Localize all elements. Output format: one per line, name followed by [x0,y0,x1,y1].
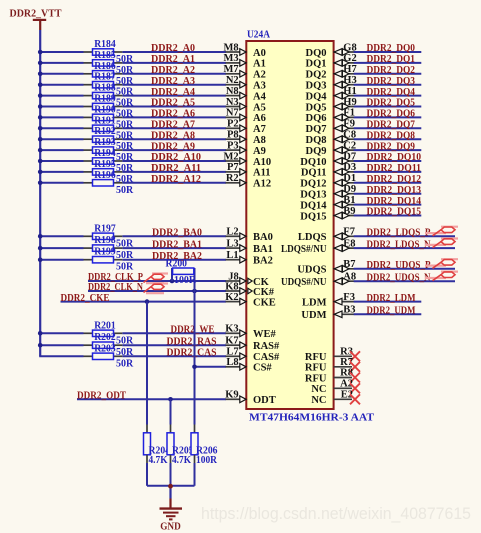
svg-text:DDR2_VTT: DDR2_VTT [10,9,62,20]
svg-text:R200: R200 [166,259,188,270]
svg-text:DQ5: DQ5 [306,102,327,113]
svg-text:D7: D7 [343,151,356,162]
svg-text:CS#: CS# [253,363,272,374]
svg-text:50R: 50R [116,358,134,369]
svg-text:R184: R184 [94,39,116,50]
svg-text:DDR2_LDQS_P: DDR2_LDQS_P [367,228,432,239]
svg-text:K2: K2 [225,292,238,303]
svg-text:DDR2_DQ15: DDR2_DQ15 [367,207,422,218]
svg-text:G8: G8 [343,42,356,53]
svg-text:L3: L3 [226,238,238,249]
svg-text:M2: M2 [224,151,239,162]
svg-text:RFU: RFU [305,373,327,384]
svg-text:A2: A2 [253,70,266,81]
svg-text:DQ4: DQ4 [306,91,328,102]
svg-text:DDR2_BA0: DDR2_BA0 [152,228,202,239]
svg-text:GND: GND [160,522,181,533]
svg-text:RFU: RFU [305,363,327,374]
svg-text:N8: N8 [226,86,239,97]
svg-text:DDR2_A3: DDR2_A3 [151,76,195,87]
svg-text:R202: R202 [94,332,116,343]
svg-text:DDR2_DQ2: DDR2_DQ2 [367,65,416,76]
svg-text:DQ10: DQ10 [300,157,326,168]
svg-text:H3: H3 [343,75,356,86]
svg-text:G2: G2 [343,53,356,64]
svg-text:100R: 100R [174,275,197,286]
svg-text:C2: C2 [343,140,356,151]
svg-text:H9: H9 [343,97,356,108]
svg-text:UDM: UDM [301,310,326,321]
svg-text:K9: K9 [225,390,238,401]
svg-text:L1: L1 [226,250,238,261]
svg-text:DQ9: DQ9 [306,146,327,157]
svg-text:U24A: U24A [247,30,270,41]
svg-text:DDR2_A4: DDR2_A4 [151,87,196,98]
svg-text:CK#: CK# [253,287,275,298]
svg-text:DQ1: DQ1 [306,59,327,70]
svg-text:H1: H1 [343,86,356,97]
svg-text:DQ3: DQ3 [306,81,327,92]
svg-text:A6: A6 [253,113,266,124]
svg-text:R185: R185 [94,50,116,61]
svg-text:CAS#: CAS# [253,352,280,363]
svg-text:N7: N7 [226,108,239,119]
svg-text:R197: R197 [94,223,116,234]
svg-text:DDR2_DQ13: DDR2_DQ13 [367,185,422,196]
svg-text:L8: L8 [226,357,238,368]
svg-text:4.7K: 4.7K [149,455,168,466]
svg-text:N3: N3 [226,97,239,108]
svg-text:NC: NC [311,395,326,406]
svg-text:A9: A9 [253,146,266,157]
svg-text:A3: A3 [253,81,266,92]
svg-text:DQ2: DQ2 [306,70,327,81]
svg-text:DDR2_RAS: DDR2_RAS [167,336,217,347]
svg-text:R195: R195 [94,159,116,170]
svg-text:A8: A8 [343,272,356,283]
svg-text:L2: L2 [226,227,238,238]
svg-text:DDR2_A2: DDR2_A2 [151,65,195,76]
svg-text:DDR2_DQ1: DDR2_DQ1 [367,54,416,65]
svg-text:R194: R194 [94,148,116,159]
svg-text:DDR2_DQ5: DDR2_DQ5 [367,98,416,109]
svg-text:MT47H64M16HR-3 AAT: MT47H64M16HR-3 AAT [249,412,374,423]
svg-text:DQ12: DQ12 [300,179,326,190]
svg-text:M3: M3 [224,53,239,64]
svg-text:DDR2_A9: DDR2_A9 [151,141,195,152]
svg-text:BA1: BA1 [253,244,273,255]
svg-text:BA2: BA2 [253,256,273,267]
svg-text:B7: B7 [343,259,355,270]
svg-text:B3: B3 [343,305,355,316]
svg-text:100R: 100R [196,455,218,466]
svg-text:DDR2_DQ12: DDR2_DQ12 [367,174,422,185]
svg-text:DDR2_DQ7: DDR2_DQ7 [367,120,416,131]
svg-text:R190: R190 [94,104,116,115]
svg-text:LDM: LDM [302,297,327,308]
svg-text:D3: D3 [343,162,356,173]
svg-text:DDR2_DQ10: DDR2_DQ10 [367,152,422,163]
svg-text:WE#: WE# [253,329,277,340]
svg-text:A1: A1 [253,59,266,70]
svg-text:DDR2_A7: DDR2_A7 [151,120,195,131]
svg-text:4.7K: 4.7K [172,455,191,466]
svg-text:R2: R2 [226,173,239,184]
svg-text:UDQS#/NU: UDQS#/NU [281,277,327,288]
svg-text:R201: R201 [94,320,116,331]
svg-text:L7: L7 [226,347,238,358]
svg-text:N2: N2 [226,75,239,86]
svg-text:DDR2_ODT: DDR2_ODT [77,391,126,402]
svg-text:H7: H7 [343,64,356,75]
svg-text:C8: C8 [343,130,356,141]
svg-text:DDR2_WE: DDR2_WE [171,325,215,336]
svg-text:DDR2_A12: DDR2_A12 [151,174,201,185]
svg-text:R198: R198 [94,235,116,246]
svg-text:DQ14: DQ14 [300,200,327,211]
svg-text:DDR2_CAS: DDR2_CAS [167,348,217,359]
svg-text:R192: R192 [94,126,116,137]
svg-text:50R: 50R [116,262,134,273]
svg-text:P8: P8 [227,130,239,141]
svg-text:A12: A12 [253,179,271,190]
svg-text:A11: A11 [253,168,271,179]
svg-text:LDQS: LDQS [298,232,327,243]
svg-text:DQ6: DQ6 [306,113,327,124]
svg-text:DQ11: DQ11 [301,168,327,179]
svg-text:DQ15: DQ15 [300,211,326,222]
svg-text:DQ13: DQ13 [300,190,326,201]
svg-text:R189: R189 [94,94,116,105]
svg-text:F3: F3 [343,292,355,303]
svg-text:DDR2_DQ11: DDR2_DQ11 [367,163,422,174]
svg-text:A5: A5 [253,102,266,113]
svg-text:E8: E8 [343,238,355,249]
svg-text:DDR2_CLK_N: DDR2_CLK_N [88,282,143,293]
svg-text:R193: R193 [94,137,116,148]
svg-text:DDR2_DQ6: DDR2_DQ6 [367,109,416,120]
svg-text:A0: A0 [253,48,266,59]
svg-text:CKE: CKE [253,297,276,308]
svg-text:DQ0: DQ0 [306,48,327,59]
svg-text:R196: R196 [94,170,116,181]
svg-text:DDR2_DQ0: DDR2_DQ0 [367,43,416,54]
svg-text:RAS#: RAS# [253,341,280,352]
svg-text:R188: R188 [94,83,116,94]
svg-text:https://blog.csdn.net/weixin_4: https://blog.csdn.net/weixin_40877615 [201,504,471,523]
svg-text:UDQS: UDQS [297,265,326,276]
svg-text:K8: K8 [225,281,238,292]
svg-text:DDR2_UDQS_P: DDR2_UDQS_P [367,260,431,271]
svg-text:F1: F1 [343,108,355,119]
svg-text:R187: R187 [94,72,116,83]
svg-text:F7: F7 [343,227,355,238]
svg-text:DDR2_LDQS_N: DDR2_LDQS_N [367,239,431,250]
svg-text:M7: M7 [224,64,239,75]
svg-text:DDR2_CKE: DDR2_CKE [61,293,110,304]
svg-text:DDR2_UDM: DDR2_UDM [367,306,416,317]
svg-text:DDR2_A6: DDR2_A6 [151,109,195,120]
svg-text:D1: D1 [343,173,356,184]
svg-text:B9: B9 [343,206,355,217]
svg-text:R186: R186 [94,61,116,72]
svg-text:DDR2_A8: DDR2_A8 [151,130,195,141]
svg-text:ODT: ODT [253,395,276,406]
svg-text:F9: F9 [343,119,355,130]
svg-text:DDR2_A11: DDR2_A11 [151,163,201,174]
svg-text:A7: A7 [253,124,266,135]
svg-text:DDR2_LDM: DDR2_LDM [367,293,416,304]
svg-text:P2: P2 [227,119,239,130]
svg-text:A4: A4 [253,91,267,102]
svg-text:K3: K3 [225,324,238,335]
svg-text:DDR2_DQ3: DDR2_DQ3 [367,76,416,87]
svg-text:DDR2_UDQS_N: DDR2_UDQS_N [367,272,431,283]
svg-text:D9: D9 [343,184,356,195]
svg-text:RFU: RFU [305,352,327,363]
svg-text:50R: 50R [116,185,134,196]
svg-text:A8: A8 [253,135,266,146]
svg-text:DDR2_A10: DDR2_A10 [151,152,201,163]
svg-text:P3: P3 [227,140,239,151]
svg-text:R203: R203 [94,343,116,354]
svg-text:P7: P7 [227,162,239,173]
svg-text:K7: K7 [225,336,238,347]
svg-text:DDR2_DQ9: DDR2_DQ9 [367,141,416,152]
svg-text:BA0: BA0 [253,232,273,243]
svg-text:A10: A10 [253,157,271,168]
svg-text:R191: R191 [94,115,116,126]
svg-text:DDR2_A5: DDR2_A5 [151,98,195,109]
svg-text:DQ7: DQ7 [306,124,327,135]
svg-text:LDQS#/NU: LDQS#/NU [281,244,327,255]
svg-text:B1: B1 [343,195,355,206]
svg-text:DDR2_BA1: DDR2_BA1 [152,239,202,250]
svg-text:NC: NC [311,384,326,395]
svg-text:DDR2_DQ8: DDR2_DQ8 [367,130,416,141]
svg-text:DDR2_A1: DDR2_A1 [151,54,195,65]
svg-text:DDR2_DQ4: DDR2_DQ4 [367,87,416,98]
svg-text:DDR2_DQ14: DDR2_DQ14 [367,196,422,207]
svg-text:DDR2_A0: DDR2_A0 [151,43,195,54]
svg-text:DQ8: DQ8 [306,135,327,146]
svg-text:R199: R199 [94,247,116,258]
svg-text:M8: M8 [224,42,239,53]
